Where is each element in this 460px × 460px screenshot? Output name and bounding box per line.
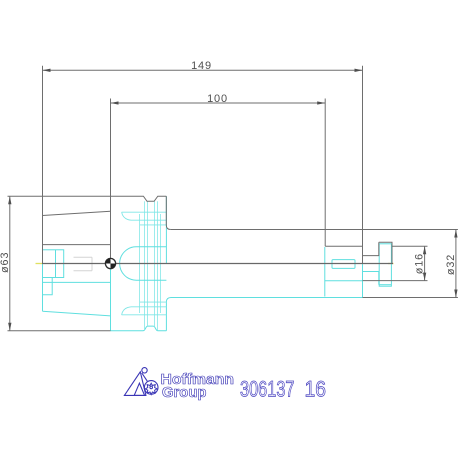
flange left face lower xyxy=(110,264,112,331)
taper bore line lower xyxy=(43,281,111,283)
logo inner triangle xyxy=(134,383,144,395)
logo outer triangle xyxy=(124,372,145,396)
screw box dark xyxy=(379,242,392,263)
arrowheads ø63 xyxy=(8,196,11,204)
svg-text:Group: Group xyxy=(162,385,207,401)
internal vertical at 100mm xyxy=(324,247,326,297)
svg-text:100: 100 xyxy=(207,93,228,105)
end notch step xyxy=(363,242,379,255)
flange right face lower with fillet xyxy=(166,298,171,331)
taper left face + 149 extension xyxy=(42,66,44,264)
claw upper xyxy=(122,212,167,315)
centerline xyxy=(42,263,393,265)
cylinder bottom xyxy=(171,297,363,299)
flange top with V-groove + ø63 extension xyxy=(8,196,167,201)
dim 100 line xyxy=(111,102,326,104)
dim ø32 line xyxy=(455,230,457,298)
dim 149 line xyxy=(43,69,363,71)
svg-text:ø32: ø32 xyxy=(445,254,457,275)
ø16 extension lines xyxy=(392,245,428,247)
flange groove verticals xyxy=(140,201,161,330)
centerline yellow ticks xyxy=(36,263,394,265)
taper left face lower xyxy=(42,264,44,312)
end face + 149 extension xyxy=(362,66,364,264)
arrowheads 100 xyxy=(111,101,119,104)
center mark xyxy=(105,258,115,268)
svg-text:ø16: ø16 xyxy=(414,253,426,274)
screw box cyan xyxy=(379,244,391,286)
ø63 bottom extension xyxy=(8,330,111,332)
svg-text:149: 149 xyxy=(191,60,212,72)
taper bottom slant xyxy=(43,311,111,316)
svg-text:16: 16 xyxy=(305,377,327,402)
coolant adjuster step xyxy=(43,278,53,295)
part number 306137 16 xyxy=(240,377,326,402)
arrowheads ø16 xyxy=(423,246,426,254)
logo arm xyxy=(142,373,148,381)
cylinder top + ø32 extension xyxy=(171,229,458,231)
100 extension right xyxy=(324,99,326,247)
logo gear star xyxy=(145,383,157,394)
weldon flat window xyxy=(332,260,355,269)
svg-text:306137: 306137 xyxy=(240,377,295,402)
dim ø63 line xyxy=(9,196,11,331)
arrowheads 149 xyxy=(43,69,51,72)
logo gear outer xyxy=(144,381,158,395)
claw lower mirror xyxy=(122,314,167,316)
taper top slant xyxy=(43,211,111,215)
flange bottom with V notch xyxy=(111,326,167,331)
coolant adjuster rect xyxy=(43,250,64,278)
arrowheads ø32 xyxy=(454,230,457,238)
logo head xyxy=(142,368,147,373)
flange left face + 100 extension xyxy=(110,99,112,264)
dim ø16 line xyxy=(424,246,426,280)
coolant tube hidden lines (light gray) xyxy=(74,257,93,271)
notch mirror lower xyxy=(363,272,379,285)
end face lower xyxy=(362,264,364,298)
gripper capsule xyxy=(120,247,167,280)
flange right face cyan overlay xyxy=(165,196,167,263)
flange right face with fillet xyxy=(166,196,171,229)
ø16 internal line lower xyxy=(325,280,363,282)
taper bore line xyxy=(43,244,111,246)
ø32 bottom extension xyxy=(363,297,458,299)
svg-text:ø63: ø63 xyxy=(0,252,11,273)
ø16 internal line xyxy=(325,245,362,247)
